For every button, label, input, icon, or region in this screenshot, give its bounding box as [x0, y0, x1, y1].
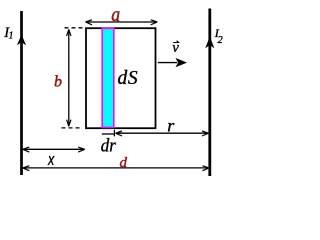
svg-text:I2: I2 [214, 26, 224, 46]
svg-text:I1: I1 [3, 25, 13, 41]
dimension r arrow left [116, 131, 123, 136]
current arrow I1 [17, 35, 26, 46]
wire I2 [208, 9, 211, 177]
svg-text:dr: dr [101, 135, 116, 156]
dimension d arrow right [203, 166, 210, 171]
dimension x arrow right [78, 147, 85, 152]
dimension b arrow down [67, 120, 71, 127]
dimension d line [23, 167, 209, 169]
current arrow I2 [205, 37, 214, 49]
extension dashes top [65, 27, 85, 29]
dr width line [102, 133, 115, 135]
extension dashes bottom [62, 127, 82, 129]
dimension a arrow right [151, 20, 158, 25]
dr tick [113, 130, 115, 137]
velocity vector v [158, 62, 177, 64]
dimension x arrow left [23, 147, 30, 152]
svg-text:a: a [111, 4, 120, 27]
svg-text:x: x [47, 150, 55, 169]
dimension r line [116, 132, 209, 134]
dimension d arrow left [23, 166, 30, 171]
svg-text:b: b [54, 74, 62, 91]
dimension a arrow left [86, 20, 93, 25]
dimension r arrow right [202, 131, 209, 136]
strip dS [102, 28, 114, 127]
label v overbar arrow [173, 41, 178, 43]
wire I1 [20, 11, 23, 175]
dimension x line [23, 148, 85, 150]
svg-text:d: d [120, 155, 128, 171]
dimension b arrow up [67, 29, 71, 36]
dimension b line [68, 29, 70, 126]
svg-text:r: r [167, 116, 175, 136]
loop rectangle [86, 28, 156, 128]
svg-text:dS: dS [118, 68, 139, 89]
dimension a line [86, 21, 158, 23]
